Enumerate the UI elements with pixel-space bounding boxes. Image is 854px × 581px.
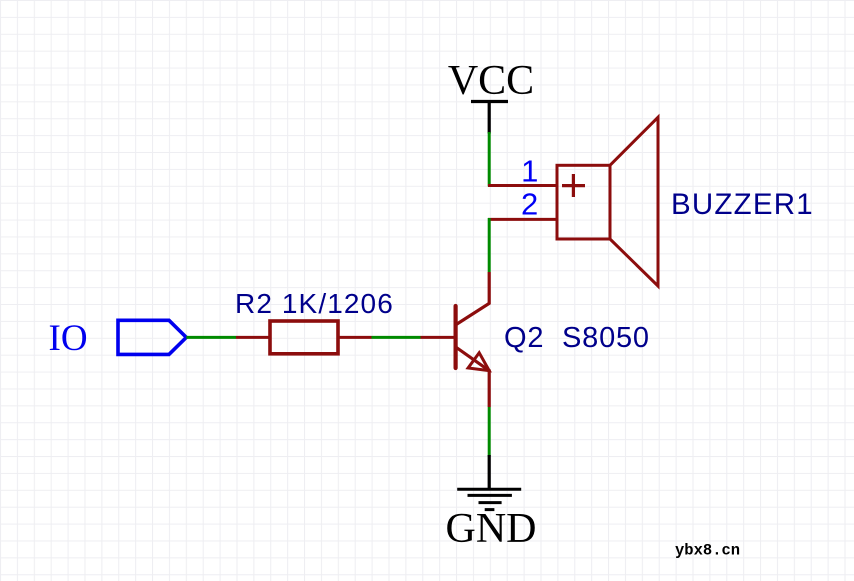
pin 1 [488, 184, 556, 187]
ground bar 1 [457, 488, 521, 491]
wire buzzer pin 2 down to collector [488, 218, 491, 272]
svg-text:GND: GND [446, 506, 537, 552]
emitter arrow [468, 353, 489, 371]
power symbol VCC [471, 102, 508, 134]
port flag [118, 320, 186, 354]
collector pin [456, 272, 489, 325]
svg-text:2: 2 [521, 187, 538, 222]
svg-text:Q2 S8050: Q2 S8050 [504, 322, 650, 354]
svg-text:IO: IO [49, 318, 88, 359]
pin 1 of R2 [236, 336, 270, 339]
ground bar 4 [485, 508, 495, 511]
ground bar 3 [479, 501, 502, 504]
base bar [454, 306, 458, 368]
svg-text:R2 1K/1206: R2 1K/1206 [235, 288, 394, 319]
port IO [49, 318, 187, 359]
resistor body [270, 321, 338, 354]
plus polarity mark [562, 174, 585, 197]
buzzer body [557, 165, 610, 239]
resistor R2 [235, 288, 394, 354]
emitter pin [456, 348, 488, 370]
emitter lead down [488, 369, 491, 407]
wire IO to resistor [186, 336, 236, 339]
base pin [421, 336, 455, 339]
svg-text:VCC: VCC [448, 58, 534, 104]
ground [446, 455, 537, 552]
wire VCC to buzzer pin 1 [488, 132, 491, 187]
wire emitter to ground [488, 407, 491, 457]
svg-text:BUZZER1: BUZZER1 [671, 188, 814, 221]
wire resistor to base [372, 336, 421, 339]
ground stub [488, 455, 491, 489]
svg-text:ybx8.cn: ybx8.cn [675, 542, 740, 560]
transistor Q2 [421, 272, 650, 407]
buzzer horn [610, 117, 658, 286]
pin 2 [488, 218, 556, 221]
ground bar 2 [468, 494, 512, 497]
svg-text:1: 1 [521, 154, 538, 189]
pin 2 of R2 [338, 336, 372, 339]
buzzer BUZZER1 [488, 117, 814, 286]
